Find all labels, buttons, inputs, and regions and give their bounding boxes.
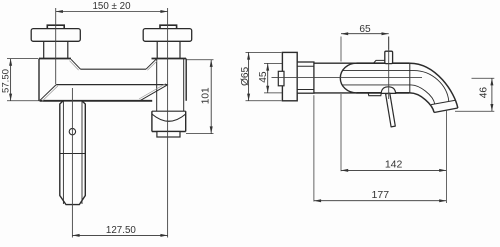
right handle cap xyxy=(143,29,192,42)
center line shower holder xyxy=(71,88,73,238)
center line left handle xyxy=(55,8,57,84)
lever dome xyxy=(381,87,395,94)
dimension 177 xyxy=(314,95,447,201)
dimension 150 ± 20 xyxy=(56,1,168,12)
body cylinder (side) xyxy=(340,63,449,104)
left handle stem xyxy=(44,41,68,58)
right handle stem xyxy=(157,41,180,58)
shower holder hole xyxy=(69,128,75,134)
svg-text:150 ± 20: 150 ± 20 xyxy=(92,1,131,12)
svg-text:142: 142 xyxy=(385,159,403,171)
dimension 45 xyxy=(258,63,282,93)
wall flange xyxy=(282,52,297,100)
svg-text:46: 46 xyxy=(478,87,489,99)
svg-text:57.50: 57.50 xyxy=(0,69,11,93)
svg-text:Ø65: Ø65 xyxy=(240,66,251,86)
aerator (front view) xyxy=(157,132,180,138)
center line right handle / spout xyxy=(167,8,169,238)
right handle notch xyxy=(160,25,177,28)
lever seat xyxy=(368,93,381,96)
adapter collar xyxy=(297,62,314,93)
dimension 142 xyxy=(341,94,446,203)
left handle notch xyxy=(47,25,64,28)
shower holder xyxy=(60,101,86,205)
svg-text:45: 45 xyxy=(258,71,269,83)
horizontal axis center line xyxy=(272,77,423,79)
faucet body bar xyxy=(39,59,186,112)
lever handle xyxy=(386,93,396,127)
dimension 127.50 xyxy=(72,225,167,236)
svg-text:101: 101 xyxy=(200,87,211,104)
top seat ridge xyxy=(374,60,385,63)
svg-text:65: 65 xyxy=(359,24,371,35)
diverter knob xyxy=(385,51,393,63)
svg-text:127.50: 127.50 xyxy=(106,225,137,236)
dimension 57.50 xyxy=(0,59,39,101)
neck tube xyxy=(314,63,357,93)
dimension Ø65 xyxy=(240,52,281,100)
knob center line xyxy=(388,37,390,100)
dimension 101 xyxy=(186,60,214,134)
spout bend xyxy=(410,63,458,112)
dimension 46 xyxy=(455,78,494,111)
wall connector stub xyxy=(278,71,284,86)
spout outlet (front view) xyxy=(152,111,186,131)
left handle cap xyxy=(31,29,80,42)
dimension 65 xyxy=(341,24,389,62)
svg-text:177: 177 xyxy=(372,189,390,201)
